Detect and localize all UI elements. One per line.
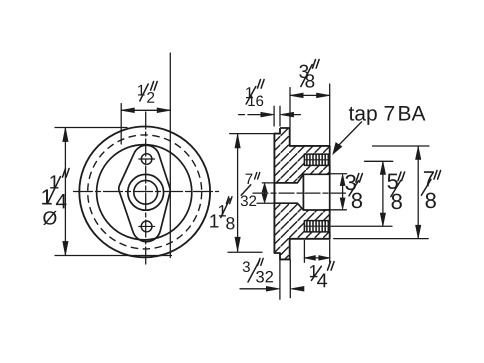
dim 7/32 arrows <box>264 186 266 200</box>
dim 1/2 text <box>138 85 145 96</box>
dim 1/4 right extension <box>329 240 331 262</box>
dim 3/8 bore dimension line <box>342 177 344 206</box>
top tapped hole thread <box>305 154 330 165</box>
section outline <box>274 128 329 259</box>
label tap 7BA <box>349 106 394 125</box>
dim 3/8 top left extension <box>289 88 291 128</box>
dim 1/2 left extension line <box>120 104 122 145</box>
front view centerline vertical <box>145 112 147 267</box>
dim 3/32 text <box>243 261 250 272</box>
front view bore circle <box>134 180 158 204</box>
dim 7/32 bottom extension <box>257 202 274 204</box>
dim 3/8 top text <box>299 65 308 78</box>
dim 5/8 text <box>387 174 397 189</box>
dim 7/8 top extension <box>373 145 430 147</box>
dim 1-1/4 dimension line <box>64 128 66 256</box>
front view hidden spigot circle (dashed) <box>88 135 202 249</box>
dim 7/32 top extension <box>262 182 274 184</box>
bottom tapped hole thread <box>305 221 330 232</box>
dim 3/8 top dimension line <box>290 94 330 96</box>
dim 3/8 bore bottom extension <box>324 209 347 211</box>
dim 3/32 arrows <box>240 288 276 290</box>
dim 7/32 text <box>246 174 253 184</box>
dim 5/8 top extension <box>365 160 393 162</box>
dim 1-1/8 text <box>210 214 218 227</box>
dim 3/32 right extension <box>289 260 291 298</box>
dim 1-1/4 top extension line <box>55 127 127 129</box>
dim 5/8 bottom extension <box>331 225 392 227</box>
dim 1/4 left extension <box>303 241 305 263</box>
dim 3/8 bore top extension <box>327 173 347 175</box>
front view outer flange circle <box>79 126 210 257</box>
dim 1/4 text <box>310 265 318 277</box>
dim 1/16 left extension <box>273 106 275 126</box>
dim 1/2 right extension line (long) <box>169 53 171 258</box>
dim 5/8 dimension line <box>382 162 384 227</box>
dim 1-1/8 top extension <box>230 133 275 135</box>
dim 1-1/8 bottom extension <box>228 251 262 253</box>
dim 3/32 left extension <box>279 260 281 299</box>
front view counterbore circle <box>128 174 164 210</box>
dim 1/4 dimension line <box>304 257 329 259</box>
dim 1/16 arrows <box>239 114 245 116</box>
front view top tapped hole <box>141 154 152 165</box>
section hatching <box>274 128 329 259</box>
dim 7/8 bottom extension <box>334 238 429 240</box>
dim 1/16 right extension <box>279 106 281 126</box>
section bore outline <box>274 154 329 232</box>
dim 1-1/4 bottom extension line <box>55 255 172 257</box>
dim 3/8 bore text <box>345 175 355 191</box>
front view lozenge boss outline <box>119 145 170 241</box>
front view boss circle <box>97 145 192 240</box>
front view centerline horizontal <box>74 191 219 193</box>
dim 7/8 text <box>424 171 434 186</box>
dim 3/8 top right extension <box>329 84 331 145</box>
dim 1/16 text <box>246 87 253 98</box>
section centerline <box>253 192 346 194</box>
dim 1/2 dimension line <box>121 109 170 111</box>
dim 7/8 dimension line <box>417 147 419 239</box>
front view bottom tapped hole <box>141 221 152 232</box>
dim 1-1/4 text <box>42 189 51 204</box>
dim 1-1/8 dimension line <box>237 134 239 251</box>
